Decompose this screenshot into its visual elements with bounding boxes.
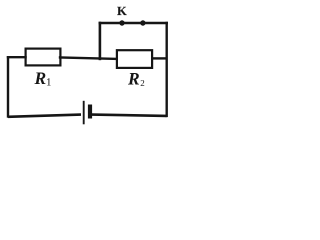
svg-text:1: 1 (46, 77, 52, 89)
svg-text:K: K (117, 4, 127, 18)
svg-text:R: R (127, 69, 140, 89)
svg-text:R: R (34, 68, 47, 88)
svg-text:2: 2 (140, 78, 145, 88)
